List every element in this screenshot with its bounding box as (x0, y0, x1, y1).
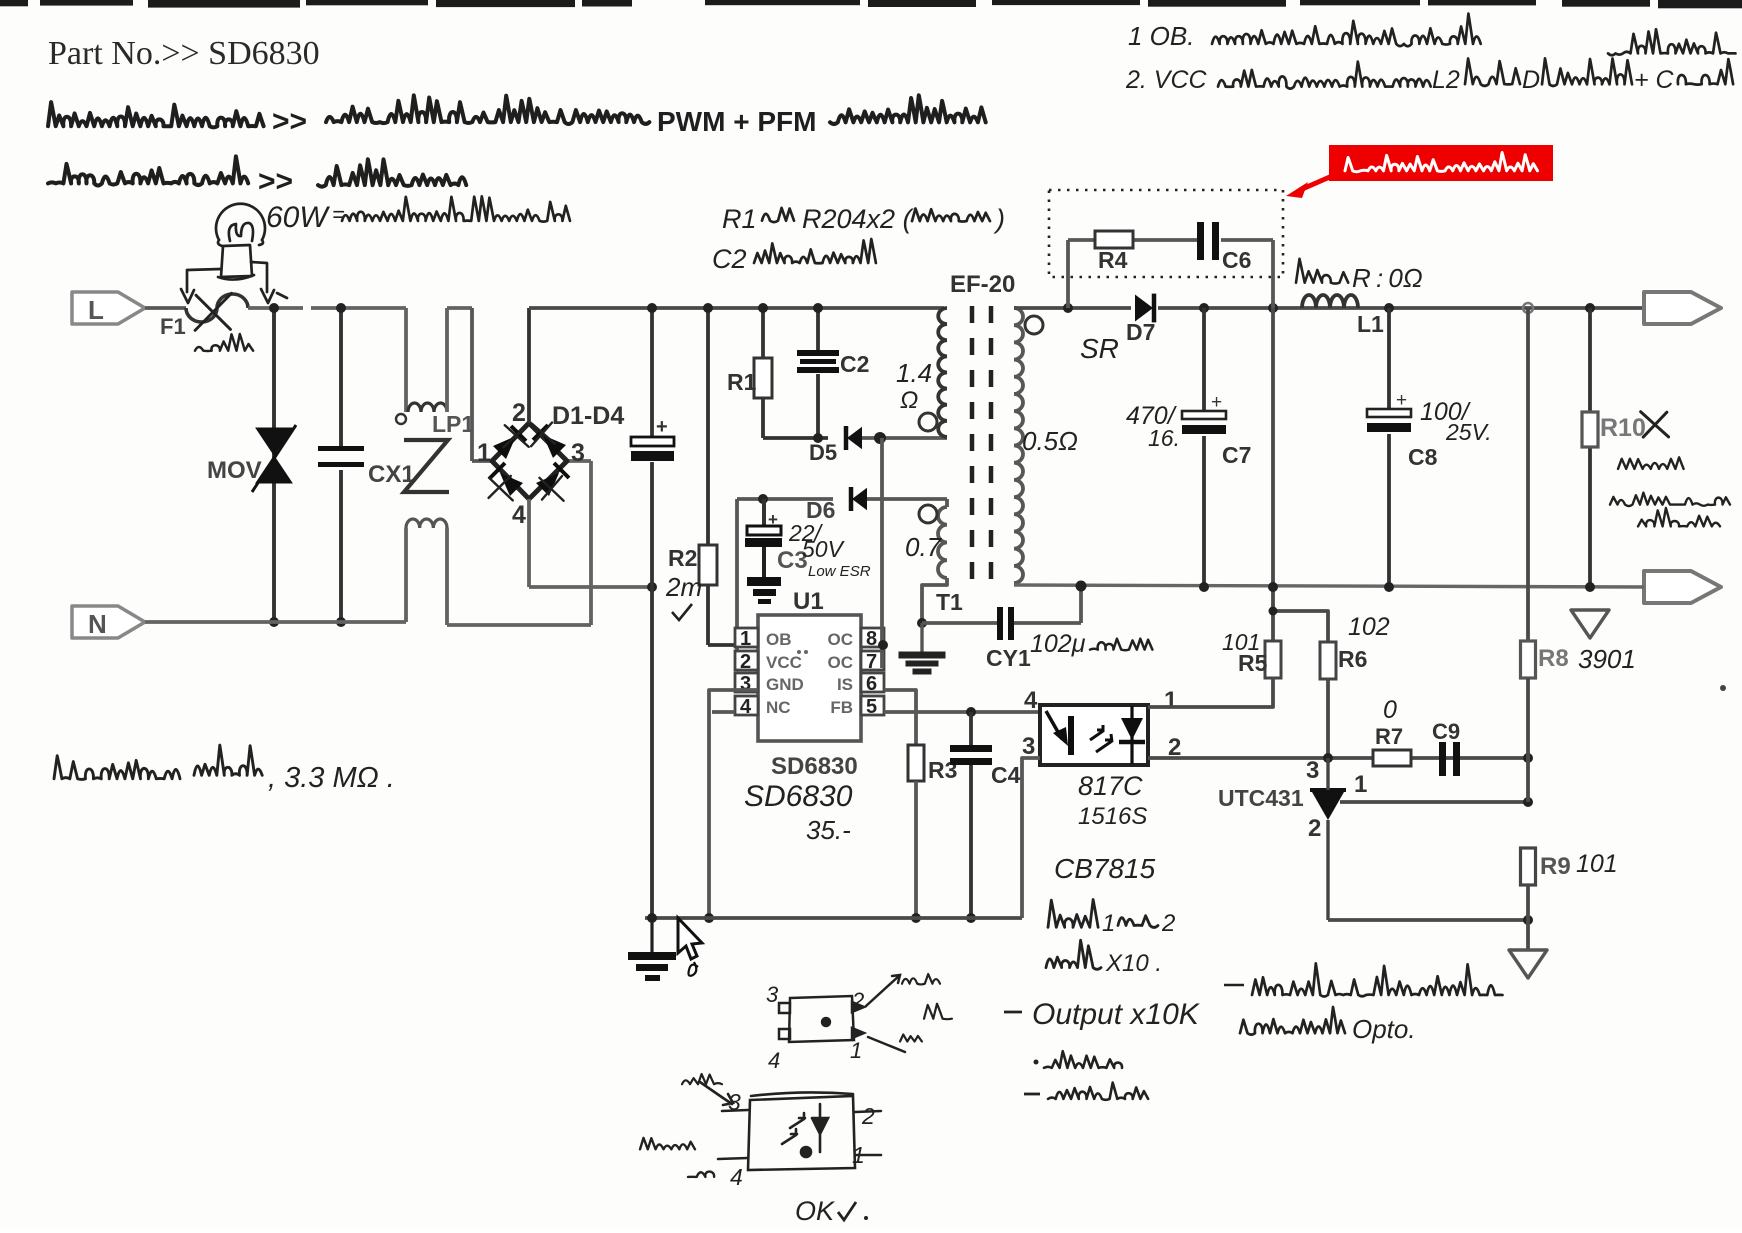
output connector + (1644, 292, 1721, 324)
wire R8 vertical (1526, 308, 1530, 641)
svg-text:+ C: + C (1634, 66, 1675, 94)
svg-text:5: 5 (866, 696, 877, 718)
svg-text:R9: R9 (1540, 853, 1571, 880)
ground triangle R9 (1509, 950, 1547, 978)
note R1 use R204x2 (722, 204, 1005, 234)
svg-text:F1: F1 (160, 314, 186, 339)
junction dot C2-D5row (813, 433, 823, 443)
note current-fault line1 (1224, 963, 1502, 996)
svg-text:, 3.3 MΩ .: , 3.3 MΩ . (268, 762, 395, 794)
wire LP1 top-out vertical (445, 308, 449, 412)
svg-text:2m: 2m (665, 572, 702, 602)
wire R3 to gnd rail (914, 781, 918, 918)
svg-text:CB7815: CB7815 (1054, 853, 1156, 884)
note yan X10 (1046, 940, 1162, 977)
red callout arrow (1300, 176, 1332, 190)
svg-text:T1: T1 (936, 589, 963, 615)
wire D5 to primary bottom (862, 436, 947, 440)
wire R5 to opto pin1 (1148, 678, 1273, 707)
wire secondary top rail after D7 (1158, 306, 1644, 310)
diode D6 (852, 488, 867, 511)
capacitor C7 (1182, 392, 1226, 434)
svg-text:4: 4 (768, 1048, 780, 1073)
wire R6 jog (1273, 611, 1328, 642)
ground below C3 (762, 547, 766, 577)
svg-text:25V.: 25V. (1445, 419, 1492, 445)
bridge diodes D1-D4 (490, 425, 569, 496)
svg-text:R6: R6 (1338, 646, 1367, 672)
wire R1 vertical (761, 308, 765, 358)
junction dot C8 bottom (1384, 582, 1394, 592)
wire opto pin3 drop (1022, 758, 1040, 918)
wire LP1 bottom-out vertical (445, 528, 449, 625)
wire C3 vertical (762, 499, 766, 526)
varistor MOV symbol (252, 425, 296, 492)
svg-text:OC: OC (828, 630, 854, 649)
junction dot R7C9-R8 (1523, 753, 1533, 763)
svg-text:C6: C6 (1222, 247, 1251, 273)
wire drop to bridge pin1 (470, 308, 474, 461)
svg-text:8: 8 (866, 628, 877, 650)
junction dot R10 bottom (1585, 582, 1595, 592)
wire N rail (145, 620, 406, 624)
svg-text:EF-20: EF-20 (950, 271, 1015, 298)
title line 3 (thai printed) (48, 156, 466, 198)
svg-text:=: = (332, 202, 345, 227)
svg-text:16.: 16. (1148, 425, 1180, 451)
LP1 phase dot top (396, 414, 406, 424)
svg-text:0.5Ω: 0.5Ω (1022, 426, 1078, 456)
junction dot gnd rail U1 (704, 913, 714, 923)
wire fuse to LP1 corner (top rail) (248, 306, 406, 310)
svg-text:1516S: 1516S (1078, 803, 1147, 830)
junction dot bulkcap-minus (647, 582, 657, 592)
svg-text:1: 1 (852, 1142, 865, 1168)
resistor R4 (1095, 231, 1133, 248)
wire C4 vertical (969, 712, 973, 747)
svg-text:1: 1 (850, 1038, 862, 1063)
opto 817C internals (1046, 706, 1145, 764)
svg-text:C8: C8 (1408, 444, 1438, 470)
svg-text:3: 3 (1022, 733, 1035, 760)
wire CY1 riser to secondary 0V (1079, 587, 1083, 623)
capacitor C9 (1439, 742, 1460, 776)
wire bulk cap vertical (650, 308, 654, 438)
svg-text:R10: R10 (1600, 414, 1646, 442)
svg-text:R4: R4 (1098, 247, 1128, 273)
junction dot N-CX1 (336, 617, 346, 627)
svg-text:817C: 817C (1078, 771, 1143, 801)
svg-text:R7: R7 (1375, 724, 1403, 749)
resistor R2 (699, 545, 717, 585)
svg-text:50V: 50V (802, 536, 846, 562)
svg-text:OK: OK (795, 1196, 835, 1226)
junction dot FB-C4 (966, 707, 976, 717)
IC U1 pin boxes (735, 628, 884, 718)
wire DC top rail (529, 306, 944, 310)
T1 secondary phase O (1025, 316, 1043, 334)
title line 2 (thai printed) (48, 95, 986, 138)
note use R 0ohm (1296, 259, 1348, 284)
wire R4C6 row (1068, 238, 1095, 242)
wire sense drop (1271, 308, 1275, 641)
junction dot T1 gnd (917, 618, 927, 628)
note C2 green body (712, 239, 876, 274)
wire CY1 row (922, 621, 997, 625)
svg-text:102: 102 (1348, 613, 1390, 641)
svg-text:CX1: CX1 (368, 461, 415, 488)
T1 core dashes (970, 306, 975, 585)
svg-text:C9: C9 (1432, 719, 1460, 744)
svg-text:GND: GND (766, 675, 804, 694)
resistor R8 (1521, 641, 1536, 678)
wire C2 vertical (816, 308, 820, 350)
svg-text:R2: R2 (668, 545, 697, 571)
svg-text:2: 2 (512, 399, 526, 427)
wire bridge pin2 riser (527, 308, 531, 423)
svg-text:C7: C7 (1222, 442, 1251, 468)
wire LP1 top-in vertical (404, 308, 408, 412)
output connector - (1644, 571, 1721, 603)
junction dot rail-R1 (758, 303, 768, 313)
svg-text:3: 3 (571, 439, 585, 467)
svg-text:3: 3 (766, 982, 779, 1007)
wire LP1 top-out to bridge drop (447, 306, 472, 310)
note wad 1 kab 2 (1048, 900, 1175, 938)
IC U1 pin names (766, 630, 853, 717)
opto sketch 2 labels (640, 1074, 875, 1226)
junction dot D5-OC node (874, 432, 886, 444)
T1 secondary winding (1014, 308, 1023, 583)
junction dot rail-C2 (813, 303, 823, 313)
svg-text:Output x10K: Output x10K (1032, 998, 1201, 1031)
note 1 OB (1128, 14, 1481, 51)
scanner edge artifact strip (0, 0, 1742, 8)
svg-text:1.4: 1.4 (896, 358, 932, 388)
svg-text:C2: C2 (840, 351, 869, 377)
junction dot rail-R2 (703, 303, 713, 313)
junction dot anode-R9 (1523, 915, 1533, 925)
wire R10 vertical (1588, 308, 1592, 412)
svg-text:R : 0Ω: R : 0Ω (1352, 263, 1423, 293)
ground below T1 (920, 623, 923, 652)
wire LP1 bottom-out to bridge pin3 drop (447, 623, 591, 627)
capacitor C2 (797, 350, 839, 373)
T1 aux winding (938, 507, 947, 578)
note input measurement 3.3Mohm (54, 745, 395, 794)
svg-text:PWM + PFM: PWM + PFM (657, 106, 816, 137)
junction dot ref-R8R9 (1523, 797, 1533, 807)
junction dot OC bus pin8 (878, 640, 888, 650)
LP1 bottom winding (406, 519, 447, 528)
svg-text:1: 1 (1102, 910, 1115, 937)
svg-text:1: 1 (1164, 687, 1177, 714)
wire R4C6 right drop (1271, 240, 1275, 308)
wire VCC left vertical (735, 499, 739, 670)
svg-text:1: 1 (477, 439, 491, 467)
resistor R7 (1373, 750, 1411, 766)
svg-text:1: 1 (1354, 771, 1367, 798)
svg-text:Ω: Ω (900, 387, 918, 414)
note 60W check (266, 196, 570, 234)
junction dot R3 gnd (911, 913, 921, 923)
connector N (72, 606, 145, 638)
wire NC pin4 stub (712, 710, 735, 714)
red callout box (1329, 145, 1553, 181)
note 102u blue (1030, 630, 1152, 658)
wire R4C6 left drop (1066, 240, 1070, 308)
junction dot L-MOV (269, 303, 279, 313)
fuse F1 (186, 294, 248, 322)
svg-text:2: 2 (861, 1103, 875, 1129)
svg-text:L2: L2 (1432, 66, 1460, 94)
wire D6 row (737, 497, 833, 501)
wire FB pin5 row (884, 710, 1040, 714)
svg-text:4: 4 (740, 696, 752, 718)
svg-text:VCC: VCC (766, 653, 802, 672)
wire secondary 0V rail (1014, 585, 1644, 587)
svg-text:U1: U1 (793, 588, 824, 615)
junction dot R6-431 (1323, 753, 1333, 763)
junction dot 0V CY1 (1076, 581, 1087, 592)
svg-text:1 OB.: 1 OB. (1128, 21, 1194, 51)
svg-text:UTC431: UTC431 (1218, 785, 1304, 811)
junction dot N-MOV (269, 617, 279, 627)
note R10 not fitted (1610, 457, 1730, 526)
small circle junction R8 top (1523, 303, 1533, 313)
svg-text:7: 7 (866, 651, 877, 673)
svg-text:R1: R1 (727, 369, 757, 395)
resistor R3 (908, 745, 924, 781)
junction dot L-CX1 (336, 303, 346, 313)
svg-text:D5: D5 (809, 440, 837, 465)
note Output x10K (1004, 998, 1201, 1031)
wire bridge pin4 drop (527, 499, 531, 587)
wire bridge pin3 riser (589, 461, 593, 625)
svg-text:102μ: 102μ (1030, 630, 1086, 658)
IC U1 body (758, 615, 861, 741)
note check opto line2 (1240, 1007, 1416, 1044)
wire R6 to feedback row (1326, 679, 1330, 758)
dotted box (unused parts) (1049, 190, 1283, 277)
capacitor CX1 symbol (318, 446, 364, 470)
diode D7 (1135, 295, 1153, 322)
svg-text:FB: FB (830, 698, 853, 717)
svg-text:SR: SR (1080, 333, 1119, 364)
svg-text:101: 101 (1576, 850, 1618, 878)
wire LP1 bottom-in vertical (404, 528, 408, 622)
svg-text:IS: IS (837, 675, 853, 694)
diode D5 (847, 427, 862, 450)
shunt reg UTC431 (1310, 788, 1346, 792)
wire primary ground rail (645, 916, 1022, 920)
svg-text:N: N (88, 609, 107, 639)
svg-text:2: 2 (1161, 910, 1175, 937)
capacitor bulk electrolytic (631, 416, 674, 461)
svg-text:C2: C2 (712, 244, 747, 274)
mouse cursor artifact (678, 918, 702, 959)
test lamp sketch over fuse (181, 204, 287, 303)
junction dot snubber right tap (1268, 303, 1278, 313)
svg-text:L1: L1 (1357, 311, 1384, 337)
svg-text:2: 2 (740, 651, 751, 673)
svg-text:L: L (88, 295, 104, 325)
junction dot sense jog (1269, 607, 1278, 616)
svg-text:D1-D4: D1-D4 (552, 402, 624, 430)
svg-text:0: 0 (1383, 696, 1397, 724)
stray ink dot artifact (1720, 685, 1726, 691)
capacitor C8 (1367, 390, 1411, 432)
svg-text:MOV: MOV (207, 457, 262, 484)
thai note under F1 (195, 334, 253, 351)
svg-text:2: 2 (851, 988, 864, 1013)
capacitor C4 (950, 745, 992, 765)
opto sketch 1 labels (766, 974, 952, 1073)
svg-text:6: 6 (866, 673, 877, 695)
svg-text:Part No.>> SD6830: Part No.>> SD6830 (48, 35, 320, 72)
svg-text:R1: R1 (722, 204, 757, 234)
inductor L1 (1302, 295, 1358, 308)
svg-text:D7: D7 (1126, 319, 1155, 345)
svg-text:4: 4 (512, 501, 526, 529)
svg-text:3: 3 (1306, 757, 1319, 784)
svg-text:R5: R5 (1238, 650, 1268, 676)
opto 817C body (1040, 705, 1148, 765)
svg-text:4: 4 (1024, 687, 1038, 714)
wire L rail to fuse (145, 306, 186, 310)
svg-text:0.7: 0.7 (905, 532, 943, 562)
wire D6 to aux winding (867, 497, 947, 501)
capacitor CY1 (997, 607, 1014, 640)
note khuen khrueng (1034, 1051, 1123, 1068)
bridge D1-D4 diamond (492, 423, 567, 499)
svg-text:>>: >> (258, 165, 293, 198)
wire R2 vertical (706, 308, 710, 545)
wire snubber row to D5 (763, 436, 828, 440)
note mai khuen khrueng (1024, 1083, 1148, 1100)
svg-text:CY1: CY1 (986, 645, 1031, 671)
junction dot bulkcap gnd (647, 913, 657, 923)
svg-text:+: + (656, 416, 668, 438)
svg-text:R204x2 (: R204x2 ( (802, 204, 915, 234)
svg-text:SD6830: SD6830 (744, 780, 853, 813)
svg-text:SD6830: SD6830 (771, 753, 858, 780)
svg-text:X10 .: X10 . (1105, 950, 1162, 977)
wire MOV vertical (272, 308, 276, 622)
svg-text:OB: OB (766, 630, 792, 649)
wire C8 vertical (1387, 308, 1391, 409)
svg-text:OC: OC (828, 653, 854, 672)
wire CX1 vertical (339, 308, 343, 448)
capacitor C3 (745, 510, 782, 547)
ground triangle output (1571, 610, 1609, 638)
opto sketch 1 (779, 975, 905, 1052)
svg-text:C4: C4 (991, 762, 1021, 788)
svg-text:R8: R8 (1538, 645, 1569, 672)
svg-text:2. VCC: 2. VCC (1125, 66, 1208, 94)
svg-text:4: 4 (730, 1164, 743, 1190)
junction dot sense-0V (1268, 582, 1278, 592)
wire 431 ref (1340, 800, 1528, 804)
wire IS pin6 to R3 (884, 690, 916, 745)
svg-text:60W: 60W (266, 201, 330, 234)
wire C7 vertical (1202, 308, 1206, 411)
resistor R5 (1265, 641, 1281, 678)
junction dot C8 top (1384, 303, 1394, 313)
svg-text:>>: >> (272, 105, 307, 138)
resistor R1 (754, 358, 772, 398)
svg-text:3: 3 (728, 1089, 741, 1115)
opto sketch 2 (700, 1082, 881, 1170)
note 2 VCC (1125, 29, 1736, 94)
resistor R9 (1521, 848, 1536, 885)
svg-text:1: 1 (740, 628, 751, 650)
resistor R10 (1582, 412, 1598, 447)
note X no part (1641, 412, 1669, 437)
junction dot C7 top (1199, 303, 1209, 313)
junction dot R4 left tap (1063, 303, 1073, 313)
X marks on bridge diodes (489, 422, 564, 500)
svg-text:NC: NC (766, 698, 791, 717)
svg-text:Low ESR: Low ESR (808, 563, 871, 580)
junction dot C3-D6 (758, 494, 768, 504)
svg-text:LP1: LP1 (432, 411, 474, 437)
T1 primary phase O (919, 413, 937, 431)
wire feedback row (1148, 756, 1528, 760)
connector L (72, 292, 145, 324)
T1 aux phase O (919, 505, 937, 523)
wire secondary top rail (1014, 306, 1131, 310)
svg-text:35.-: 35.- (806, 815, 851, 845)
wire VCC to pin2 (735, 668, 739, 672)
wire OC pins bus (880, 438, 884, 668)
ground symbol primary rail (650, 918, 653, 952)
LP1 core Z symbol (404, 440, 449, 492)
svg-text:Opto.: Opto. (1352, 1014, 1416, 1044)
LP1 top winding (408, 403, 447, 412)
svg-text:2: 2 (1308, 815, 1321, 842)
junction dot R10 top (1585, 303, 1595, 313)
fuse X mark (195, 293, 231, 330)
junction dot rail-bulkcap (647, 303, 657, 313)
junction dot C7 bottom (1199, 582, 1209, 592)
resistor R6 (1320, 642, 1336, 679)
wire R9 bottom to gnd (1526, 885, 1530, 950)
wire GND pin3 net (709, 690, 758, 918)
wire 431 anode return (1328, 918, 1528, 922)
wire R8 to ref (1526, 678, 1530, 802)
svg-text:3901: 3901 (1578, 644, 1636, 674)
T1 primary winding (938, 308, 947, 437)
T1 aux bottom wire (922, 578, 947, 623)
svg-text:D: D (1522, 66, 1540, 94)
capacitor C6 (1197, 222, 1219, 260)
junction dot C4 gnd (966, 913, 976, 923)
